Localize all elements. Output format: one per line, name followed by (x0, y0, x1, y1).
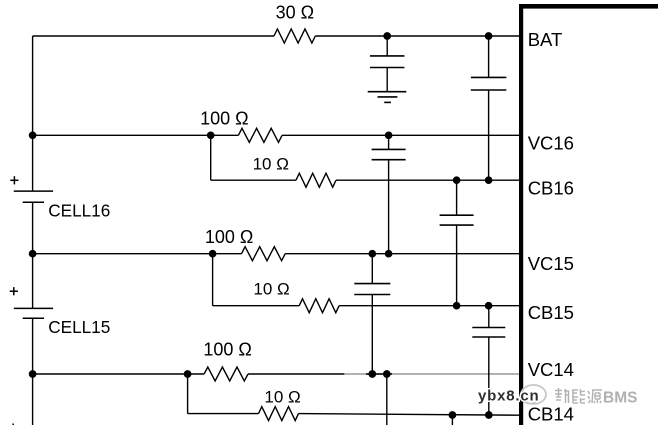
svg-text:BMS: BMS (603, 390, 637, 407)
svg-text:10 Ω: 10 Ω (253, 155, 289, 174)
svg-text:100 Ω: 100 Ω (200, 109, 249, 129)
svg-text:ybx8.cn: ybx8.cn (478, 388, 539, 405)
svg-text:CB15: CB15 (528, 302, 574, 323)
svg-text:CELL15: CELL15 (48, 317, 110, 337)
svg-text:CB16: CB16 (528, 178, 574, 199)
svg-text:CB14: CB14 (528, 404, 574, 425)
svg-text:VC14: VC14 (528, 359, 574, 380)
svg-text:VC15: VC15 (528, 253, 574, 274)
svg-text:CELL16: CELL16 (48, 200, 110, 220)
svg-text:VC16: VC16 (528, 132, 574, 153)
svg-text:BAT: BAT (528, 29, 563, 50)
svg-text:100 Ω: 100 Ω (203, 340, 252, 360)
svg-text:100 Ω: 100 Ω (205, 227, 254, 247)
svg-text:10 Ω: 10 Ω (253, 279, 289, 298)
svg-text:10 Ω: 10 Ω (264, 387, 300, 406)
svg-text:30 Ω: 30 Ω (276, 2, 314, 22)
